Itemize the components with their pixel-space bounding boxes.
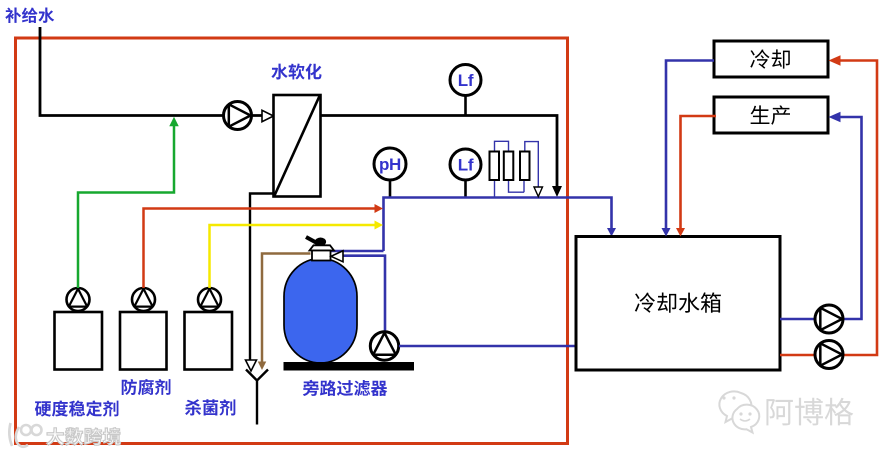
circulation pump (red circuit) <box>815 341 843 369</box>
pump P1 (makeup water pump) <box>224 102 252 130</box>
drain funnel <box>246 370 268 425</box>
wire: blue return 冷却 to tank <box>666 61 714 231</box>
dosing pump 3 <box>198 288 221 311</box>
chemical tank 3 (biocide) <box>185 312 233 370</box>
wire: arrow into manifold <box>552 186 562 197</box>
chemical tank 1 (hardness stabilizer) <box>55 312 103 370</box>
wire: red dosing line <box>144 209 378 289</box>
dosing pump 2 <box>132 288 155 311</box>
bypass filter vessel <box>284 259 357 364</box>
bypass pump <box>370 332 398 360</box>
wire: brown backwash drain line <box>262 254 311 363</box>
svg-text:Lf: Lf <box>458 71 474 90</box>
watermark bottom-right wechat logo <box>719 391 759 432</box>
watermark bottom-left logo <box>9 423 41 447</box>
node: label 杀菌剂 <box>185 399 235 415</box>
consumer box 生产 <box>714 97 828 133</box>
consumer box 冷却 <box>714 41 828 77</box>
wire: arrow into cooling tank <box>607 228 616 237</box>
watermark bottom-right text 阿博格 <box>766 398 853 426</box>
wire: softener drain line <box>250 194 274 361</box>
wire: green dosing line <box>78 121 174 288</box>
filter multiport valve <box>306 237 317 243</box>
softener vessel U1 <box>274 95 321 197</box>
instrument pH <box>389 180 392 198</box>
dosing pump 1 <box>67 288 90 311</box>
cooling water tank 冷却水箱 <box>576 237 780 371</box>
wire: red supply tank to 冷却 <box>780 61 877 356</box>
node: softener label 水软化 <box>271 63 321 79</box>
wire: manifold to filter valve <box>331 250 384 253</box>
watermark bottom-left text 大数跨境 <box>47 428 121 446</box>
wire: yellow dosing line <box>210 225 378 288</box>
node: makeup water label 补给水 <box>5 7 54 23</box>
wire: blue treated-water manifold <box>384 198 612 252</box>
instrument Lf1 (conductivity) <box>464 96 467 116</box>
wire: red return 生产 to tank <box>681 116 717 230</box>
svg-text:Lf: Lf <box>458 156 474 175</box>
filter stand <box>284 362 415 371</box>
check valve <box>262 110 274 121</box>
node: label 防腐剂 <box>122 379 171 395</box>
instrument Lf2 <box>464 180 467 198</box>
circulation pump (blue circuit) <box>815 305 843 333</box>
node: label 旁路过滤器 <box>303 380 387 396</box>
drain outlet triangle <box>246 360 257 371</box>
wire: red system boundary <box>16 38 568 444</box>
wire: blue supply tank to 生产 <box>780 117 862 319</box>
wire: bypass pump outlet to cooling tank <box>399 345 576 348</box>
node: label 硬度稳定剂 <box>35 400 119 416</box>
wire: makeup water black line <box>40 27 557 189</box>
svg-text:pH: pH <box>379 155 401 174</box>
chemical tank 2 (corrosion inhibitor) <box>120 312 167 370</box>
electrode assembly (sensor cell) <box>495 141 539 197</box>
wire: filter valve outlet down to bypass pump <box>343 256 386 332</box>
